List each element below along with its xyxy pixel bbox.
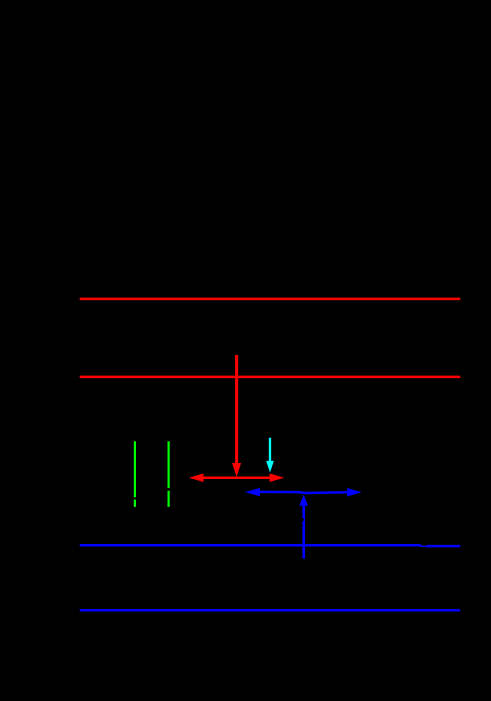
blue vertical arrow (upward): [299, 494, 308, 558]
lower blue energy level line: [80, 609, 461, 612]
upper blue energy level line (left segment): [80, 544, 421, 547]
lower red energy level line: [80, 376, 461, 379]
upper blue energy level line (bridge strip under text cutout): [421, 545, 428, 547]
cyan vertical arrow (downward): [266, 438, 274, 473]
red horizontal double-headed arrow: [189, 473, 284, 482]
upper blue energy level line (right segment, slightly offset): [427, 545, 461, 548]
green dashed marker line (right): [168, 441, 170, 507]
small black text cutout over the blue arrow shaft: [302, 518, 304, 521]
blue horizontal double-headed arrow: [245, 488, 362, 497]
red vertical pump arrow (downward): [232, 355, 241, 477]
green dashed marker line (left): [134, 441, 136, 507]
upper red energy level line: [80, 298, 461, 301]
